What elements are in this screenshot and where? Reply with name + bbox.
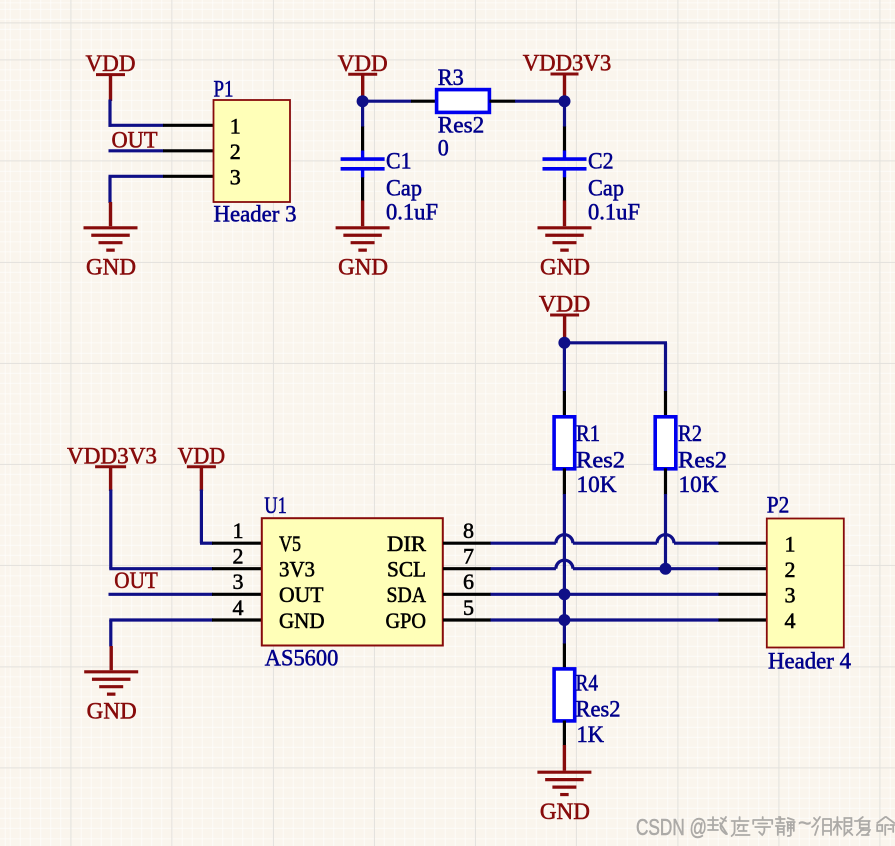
svg-text:C2: C2	[588, 149, 614, 174]
wire R1 bottom column	[563, 494, 566, 644]
ground GND (C1)	[336, 201, 390, 280]
svg-text:3: 3	[233, 569, 244, 594]
svg-text:R1: R1	[576, 421, 600, 446]
svg-text:Cap: Cap	[386, 176, 422, 201]
svg-text:OUT: OUT	[112, 128, 158, 153]
pin 8 of U1	[443, 542, 491, 545]
svg-text:~: ~	[798, 810, 811, 836]
svg-text:GND: GND	[540, 799, 590, 824]
pin 2 of P1	[163, 149, 213, 152]
wire GND to P1 pin 3	[109, 175, 164, 178]
wire OUT to P1 pin 2	[109, 149, 164, 152]
power port VDD (U1)	[178, 443, 226, 491]
svg-text:CSDN @: CSDN @	[636, 814, 707, 840]
wire R2 bottom to SCL	[664, 494, 667, 569]
power port VDD (rail)	[338, 51, 388, 101]
svg-text:P2: P2	[767, 492, 790, 517]
pin 2 of U1	[212, 567, 262, 570]
svg-text:5: 5	[463, 595, 474, 620]
wire VDD to P1 pin 1	[108, 100, 111, 127]
svg-text:Cap: Cap	[588, 176, 624, 201]
svg-text:2: 2	[233, 544, 244, 569]
connector P2	[767, 519, 844, 648]
svg-text:GND: GND	[338, 255, 388, 280]
pin 2 of C2	[563, 177, 566, 201]
wire VDD3V3 to U1 pin 2	[109, 490, 112, 569]
connector P1	[214, 100, 291, 202]
resistor R4	[554, 669, 575, 721]
wire DIR to P2 pin 1	[491, 542, 556, 545]
svg-text:2: 2	[785, 557, 796, 582]
resistor R2	[655, 417, 676, 469]
pin 1 of U1	[212, 542, 262, 545]
junction node R1-SDA	[558, 588, 570, 600]
capacitor C2	[543, 151, 587, 178]
wire SDA to P2 pin 3	[491, 593, 720, 596]
ground GND (U1)	[84, 646, 138, 724]
svg-text:P1: P1	[214, 77, 234, 102]
resistor R1	[554, 417, 575, 469]
svg-text:GND: GND	[540, 255, 590, 280]
svg-text:C1: C1	[386, 149, 412, 174]
pin 7 of U1	[443, 567, 491, 570]
wire GPO to P2 pin 4	[491, 618, 720, 621]
pin 1 of R3	[411, 100, 437, 103]
ground GND (C2)	[538, 201, 592, 280]
svg-text:8: 8	[463, 518, 474, 543]
ground GND (P1)	[84, 202, 138, 280]
pin 1 of C1	[361, 127, 364, 152]
svg-text:V5: V5	[279, 531, 301, 556]
wire OUT to U1 pin 3	[109, 593, 214, 596]
pin 3 of U1	[212, 593, 262, 596]
pin 5 of U1	[443, 618, 491, 621]
svg-text:0.1uF: 0.1uF	[588, 200, 640, 225]
svg-text:1K: 1K	[577, 722, 605, 747]
svg-text:GND: GND	[279, 608, 325, 633]
svg-text:3: 3	[230, 164, 241, 189]
resistor R3	[437, 90, 490, 113]
pin 1 of C2	[563, 127, 566, 152]
svg-text:OUT: OUT	[114, 568, 158, 593]
pin 4 of P2	[719, 618, 768, 621]
capacitor C1	[341, 151, 385, 178]
pin 2 of R2	[664, 468, 667, 494]
svg-text:R3: R3	[438, 65, 464, 90]
wire SCL to P2 pin 2	[491, 567, 556, 570]
IC U1 body	[262, 518, 443, 645]
junction VDD3V3 rail node B	[559, 95, 571, 107]
pin 2 of C1	[361, 177, 364, 201]
pin 4 of U1	[212, 618, 262, 621]
pin 1 of R2	[664, 391, 667, 418]
junction node R2-SCL	[660, 563, 672, 575]
svg-text:3: 3	[785, 583, 796, 608]
junction VDD rail node A	[357, 95, 369, 107]
svg-text:1: 1	[230, 113, 241, 138]
wire GND to U1 pin 4	[109, 618, 213, 621]
pin 1 of P1	[163, 124, 213, 127]
svg-text:U1: U1	[264, 493, 287, 518]
pin 2 of R1	[563, 468, 566, 494]
wire node A to R3	[363, 100, 412, 103]
svg-text:10K: 10K	[679, 472, 719, 497]
power port VDD3V3 (rail)	[523, 51, 612, 101]
svg-text:GND: GND	[86, 255, 136, 280]
wire node C to R1 top	[563, 343, 566, 392]
wire node to C1	[361, 101, 364, 127]
svg-text:Header 4: Header 4	[768, 648, 851, 673]
svg-text:VDD3V3: VDD3V3	[523, 51, 612, 76]
svg-text:VDD: VDD	[86, 51, 136, 76]
pin 1 of R1	[563, 391, 566, 418]
svg-text:VDD: VDD	[178, 443, 226, 468]
pin 1 of R4	[563, 644, 566, 670]
svg-text:6: 6	[463, 569, 474, 594]
power port VDD (pullups)	[539, 292, 591, 342]
svg-text:R4: R4	[576, 671, 599, 696]
svg-text:0: 0	[438, 136, 449, 161]
svg-text:Res2: Res2	[576, 448, 625, 473]
junction pullup node C	[558, 337, 570, 349]
svg-text:GPO: GPO	[386, 608, 427, 633]
wire R3 to node B	[515, 100, 565, 103]
wire node C to R2 top	[564, 341, 667, 344]
svg-text:1: 1	[233, 518, 244, 543]
svg-text:VDD: VDD	[338, 51, 388, 76]
svg-text:SCL: SCL	[387, 557, 426, 582]
svg-text:Res2: Res2	[438, 113, 485, 138]
junction node R4-GPO	[558, 614, 570, 626]
svg-text:1: 1	[785, 531, 796, 556]
svg-text:VDD3V3: VDD3V3	[67, 443, 157, 468]
svg-text:AS5600: AS5600	[265, 645, 339, 670]
power port VDD3V3 (U1)	[67, 443, 157, 491]
svg-text:R2: R2	[678, 421, 702, 446]
svg-text:10K: 10K	[577, 472, 617, 497]
svg-text:GND: GND	[87, 699, 137, 724]
watermark CSDN	[636, 810, 894, 840]
svg-text:VDD: VDD	[539, 292, 591, 317]
svg-text:7: 7	[463, 544, 474, 569]
pin 2 of R3	[490, 100, 516, 103]
power port VDD (P1)	[86, 51, 136, 101]
svg-text:0.1uF: 0.1uF	[386, 200, 438, 225]
svg-text:4: 4	[233, 595, 244, 620]
svg-text:Res2: Res2	[678, 448, 727, 473]
pin 3 of P2	[719, 593, 768, 596]
pin 6 of U1	[443, 593, 491, 596]
pin 3 of P1	[163, 175, 213, 178]
svg-text:4: 4	[785, 608, 796, 633]
svg-text:DIR: DIR	[387, 531, 426, 556]
pin 2 of P2	[719, 567, 768, 570]
svg-text:3V3: 3V3	[279, 557, 315, 582]
wire VDD to U1 pin 1	[200, 490, 203, 544]
ground GND (R4)	[537, 745, 591, 824]
wire node to C2	[563, 101, 566, 127]
svg-text:SDA: SDA	[387, 582, 427, 607]
svg-text:Res2: Res2	[576, 697, 621, 722]
svg-text:OUT: OUT	[279, 582, 324, 607]
svg-text:2: 2	[230, 139, 241, 164]
svg-text:Header 3: Header 3	[214, 202, 297, 227]
pin 2 of R4	[563, 721, 566, 746]
pin 1 of P2	[719, 542, 768, 545]
